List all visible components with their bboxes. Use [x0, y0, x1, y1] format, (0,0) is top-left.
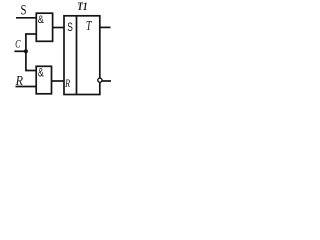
svg-text:C: C — [15, 37, 21, 51]
wire C to junction — [14, 50, 26, 52]
and-gate U1 box — [36, 13, 52, 41]
wire AND2 output to R pin — [52, 80, 65, 82]
flip-flop divider line — [76, 16, 78, 95]
svg-text:T1: T1 — [77, 0, 87, 13]
svg-text:&: & — [38, 14, 45, 26]
wire R input — [16, 86, 38, 88]
wire AND1 output to S pin — [52, 27, 65, 29]
wire Q-bar output stub — [102, 80, 111, 82]
wire C upper branch into AND1 — [26, 33, 37, 35]
flip-flop T1 box — [64, 16, 100, 95]
junction node on C — [24, 49, 28, 53]
inverter bubble on Q-bar output — [98, 78, 102, 82]
svg-text:S: S — [67, 20, 73, 34]
wire Q output stub — [100, 26, 111, 28]
wire S input — [16, 17, 37, 19]
svg-text:R: R — [64, 78, 70, 90]
wire C vertical branch — [25, 33, 27, 71]
wire C lower branch into AND2 — [26, 70, 37, 72]
and-gate U2 box — [36, 66, 51, 94]
svg-text:R: R — [15, 73, 24, 88]
svg-text:S: S — [21, 3, 27, 19]
svg-text:&: & — [38, 68, 44, 80]
